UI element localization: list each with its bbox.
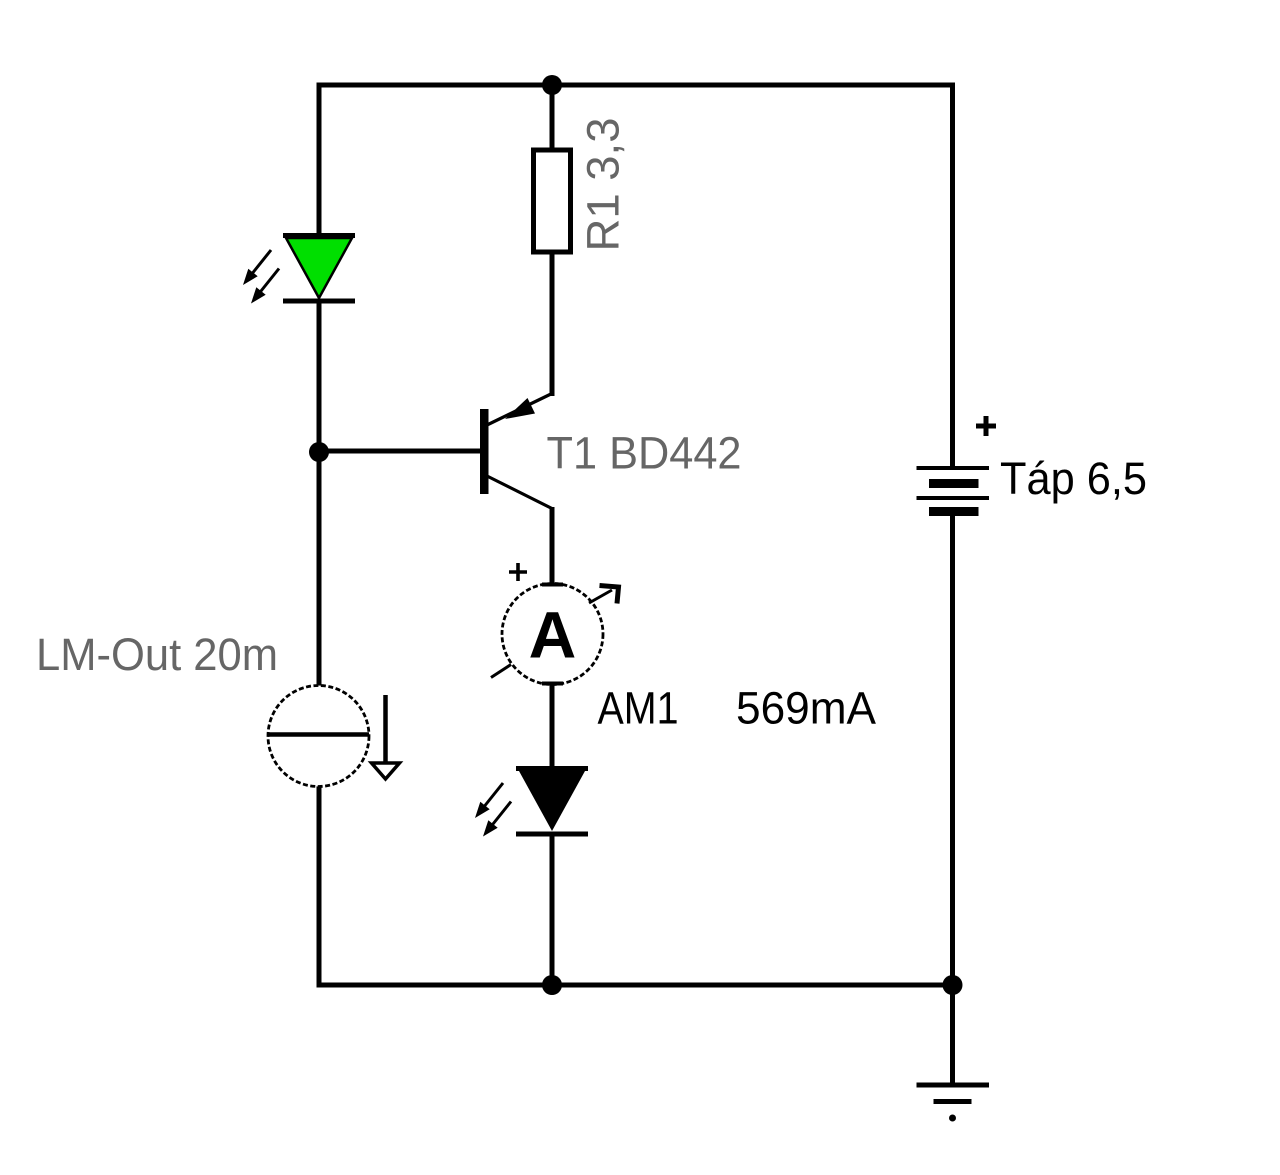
svg-text:Táp 6,5: Táp 6,5 <box>1000 453 1147 504</box>
svg-text:T1 BD442: T1 BD442 <box>547 428 742 479</box>
svg-text:569mA: 569mA <box>736 683 876 734</box>
svg-text:R1 3,3: R1 3,3 <box>578 118 629 252</box>
svg-text:A: A <box>529 598 577 672</box>
svg-text:AM1: AM1 <box>598 683 679 734</box>
svg-text:LM-Out 20m: LM-Out 20m <box>36 629 278 680</box>
